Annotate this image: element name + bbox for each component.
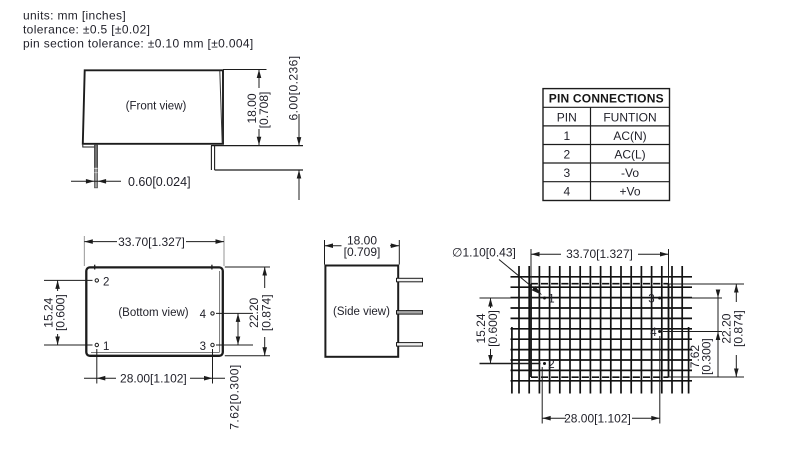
svg-text:pin section tolerance: ±0.10 m: pin section tolerance: ±0.10 mm [±0.004] <box>23 37 254 51</box>
front view pin-section tab (right) <box>211 145 303 147</box>
svg-text:2: 2 <box>548 359 554 371</box>
svg-text:33.70[1.327]: 33.70[1.327] <box>118 235 185 249</box>
svg-text:FUNTION: FUNTION <box>603 110 656 124</box>
side view pin 2 (middle) <box>397 311 423 315</box>
svg-text:0.60[0.024]: 0.60[0.024] <box>128 175 191 189</box>
svg-text:4: 4 <box>650 327 657 339</box>
dimension 28.00 [1.102] bottom of grid <box>541 367 543 424</box>
svg-text:3: 3 <box>563 166 570 180</box>
front view bottom-left step <box>83 145 97 147</box>
svg-text:[0.300]: [0.300] <box>699 338 713 375</box>
svg-text:PIN: PIN <box>557 110 577 124</box>
svg-text:28.00[1.102]: 28.00[1.102] <box>120 372 187 386</box>
grid pin 3 <box>658 297 661 300</box>
bottom view extension lines (33.70) <box>83 236 85 266</box>
dimension 7.62 (pins 4-3) of bottom view <box>216 312 253 314</box>
side view body outline <box>325 266 398 357</box>
grid pin 2 <box>543 362 546 365</box>
svg-text:units: mm [inches]: units: mm [inches] <box>23 9 126 23</box>
dimension 28.00 [1.102] bottom of bottom view <box>96 349 98 384</box>
svg-text:[0.874]: [0.874] <box>732 310 746 347</box>
svg-text:[0.709]: [0.709] <box>344 245 381 259</box>
dimension 33.70 [1.327] top of bottom view <box>84 241 117 243</box>
bottom view body outline <box>86 267 223 355</box>
grid pin 4 <box>658 330 661 333</box>
svg-text:2: 2 <box>103 277 109 289</box>
side view pin 1 (top) <box>397 278 423 282</box>
svg-text:4: 4 <box>200 309 207 321</box>
svg-text:3: 3 <box>200 341 206 353</box>
pin connections table frame <box>543 89 670 201</box>
module outline on grid (dashed) <box>531 283 669 285</box>
svg-text:3: 3 <box>648 294 654 306</box>
svg-text:tolerance: ±0.5 [±0.02]: tolerance: ±0.5 [±0.02] <box>23 23 150 37</box>
svg-text:2: 2 <box>563 147 570 161</box>
svg-text:(Bottom view): (Bottom view) <box>118 307 188 319</box>
side view pin 3 (bottom) <box>397 343 423 347</box>
svg-text:[0.600]: [0.600] <box>486 310 500 347</box>
dimension 18.00 [0.708] (front view height) <box>258 70 260 89</box>
dimension 15.24 [0.600] left of bottom view <box>44 279 93 281</box>
svg-text:28.00[1.102]: 28.00[1.102] <box>564 412 631 426</box>
svg-text:AC(N): AC(N) <box>613 129 646 143</box>
extension line from front view top edge <box>223 69 267 71</box>
bottom view pin 2 <box>95 279 98 282</box>
svg-text:[0.874]: [0.874] <box>260 294 274 331</box>
grid pin 1 <box>543 297 546 300</box>
bottom view top edge ticks <box>94 265 96 270</box>
perfboard grid horizontal lines <box>511 277 693 381</box>
perfboard grid vertical lines <box>519 266 682 394</box>
dimension 15.24 [0.600] left of grid <box>480 297 542 299</box>
svg-text:(Front view): (Front view) <box>126 101 187 113</box>
svg-text:PIN CONNECTIONS: PIN CONNECTIONS <box>549 92 664 106</box>
dimension 22.20 [0.874] right of grid <box>669 283 745 285</box>
svg-text:(Side view): (Side view) <box>333 306 390 318</box>
svg-text:6.00[0.236]: 6.00[0.236] <box>286 55 300 120</box>
svg-text:-Vo: -Vo <box>621 166 639 180</box>
svg-text:∅1.10[0.43]: ∅1.10[0.43] <box>452 246 516 260</box>
dimension 7.62 [0.300] right of grid pins <box>663 297 722 299</box>
bottom view inner seam lines <box>219 271 221 352</box>
bottom view pin 4 <box>211 312 214 315</box>
svg-text:[0.600]: [0.600] <box>53 294 67 331</box>
dimension 22.20 [0.874] right of bottom view <box>225 266 270 268</box>
dimension 33.70 [1.327] top of grid <box>530 249 532 284</box>
svg-text:+Vo: +Vo <box>619 185 640 199</box>
svg-text:7.62[0.300]: 7.62[0.300] <box>228 364 242 430</box>
svg-text:4: 4 <box>563 185 570 199</box>
svg-text:1: 1 <box>103 341 109 353</box>
table column divider <box>590 107 592 200</box>
svg-text:1: 1 <box>548 294 554 306</box>
svg-text:AC(L): AC(L) <box>614 147 645 161</box>
front view pin (left) <box>95 145 98 188</box>
front view body outline <box>83 70 223 144</box>
front view case seam line (right) <box>220 71 222 144</box>
svg-text:33.70[1.327]: 33.70[1.327] <box>566 247 633 261</box>
dimension 18.00 [0.709] top of side view <box>324 240 326 265</box>
short edge grid verticals <box>511 327 513 394</box>
dimension 0.60 [0.024] (pin width) <box>71 180 121 182</box>
bottom view pin 3 <box>211 343 214 346</box>
svg-text:[0.708]: [0.708] <box>257 92 271 129</box>
bottom view pin 1 <box>95 343 98 346</box>
svg-text:1: 1 <box>563 129 570 143</box>
